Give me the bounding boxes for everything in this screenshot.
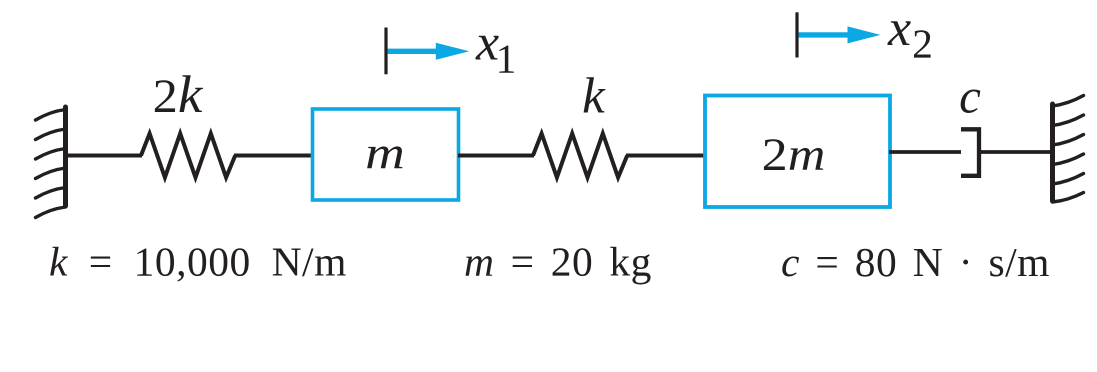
spring k <box>533 134 627 178</box>
mass m box <box>313 109 459 200</box>
x1 reference tick <box>384 28 387 75</box>
svg-text:m: m <box>365 127 405 179</box>
wire: damper to wall right <box>979 150 1053 154</box>
wire: spring 2k to mass m <box>234 154 313 158</box>
damper C bracket <box>961 129 979 176</box>
svg-text:m = 20 kg: m = 20 kg <box>464 239 652 285</box>
wire: mass m to spring k <box>458 154 534 158</box>
svg-text:k = 10,000 N/m: k = 10,000 N/m <box>49 239 347 285</box>
svg-text:c = 80 N · s/m: c = 80 N · s/m <box>781 239 1050 285</box>
wire: spring k to mass 2m <box>626 154 706 158</box>
wire: wall to spring 2k <box>65 154 142 158</box>
x1 arrow <box>388 49 445 54</box>
mass 2m box <box>705 96 890 208</box>
wall left <box>36 107 66 218</box>
svg-text:2k: 2k <box>153 65 204 124</box>
x2 reference tick <box>795 12 798 57</box>
svg-text:k: k <box>582 69 606 125</box>
svg-text:c: c <box>959 69 981 124</box>
spring 2k <box>141 134 235 178</box>
x2 arrow <box>799 32 856 37</box>
svg-text:2m: 2m <box>762 128 826 180</box>
wall right <box>1053 96 1084 203</box>
wire: mass 2m to damper <box>889 150 961 154</box>
